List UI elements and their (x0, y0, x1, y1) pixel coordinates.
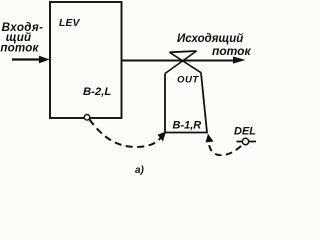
svg-text:DEL: DEL (234, 126, 256, 138)
svg-text:OUT: OUT (177, 74, 199, 85)
dashed control link: LEV port to OUT bottom-left (90, 120, 167, 148)
svg-text:В-2,L: В-2,L (83, 86, 111, 98)
label: Исходящий поток (outgoing flow) (177, 33, 252, 58)
label: Входящий поток (incoming flow) (0, 21, 43, 55)
svg-text:поток: поток (0, 42, 39, 55)
block OUT (pentagon body) (165, 73, 207, 133)
port circle on LEV bottom (84, 115, 90, 121)
node DEL (234, 126, 256, 145)
valve symbol on output line (165, 51, 201, 74)
svg-text:а): а) (135, 165, 145, 176)
svg-text:LEV: LEV (59, 18, 81, 29)
dashed control link: DEL to OUT bottom-right (206, 134, 242, 155)
arrow: input flow into LEV (12, 56, 50, 64)
wire: output flow line (122, 57, 246, 64)
block LEV (50, 2, 122, 118)
svg-text:поток: поток (212, 44, 252, 58)
svg-text:В-1,R: В-1,R (173, 120, 202, 132)
